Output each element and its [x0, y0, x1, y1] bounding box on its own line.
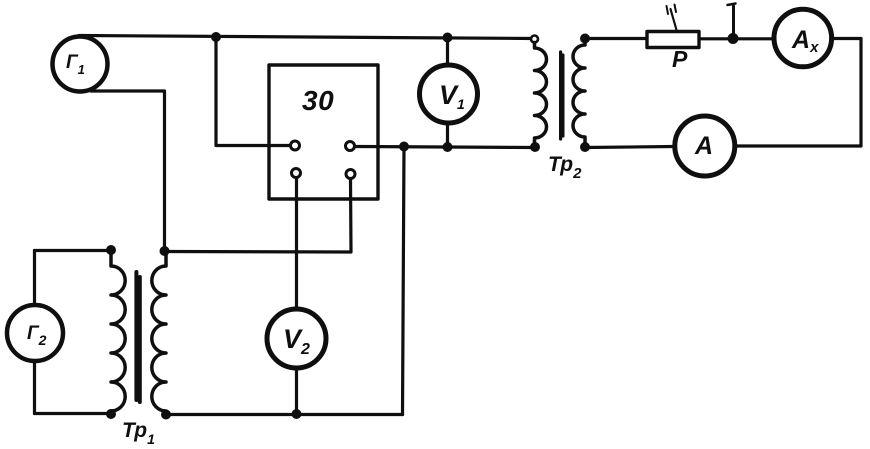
wire lower-left terminal down to V2 — [295, 179, 298, 309]
node junction bottom bus at V2 — [292, 409, 302, 419]
wire Тр2 secondary top to resistor P — [585, 37, 647, 40]
transformer Тр2 core — [559, 52, 562, 139]
transformer Тр1 core — [134, 272, 138, 400]
wire junction down to ЗО box left terminal — [216, 37, 289, 146]
terminal upper-right of ЗО — [346, 142, 355, 151]
node Тр1 secondary bottom — [161, 410, 171, 420]
voltmeter V2 — [267, 309, 326, 368]
ammeter Ах — [774, 9, 832, 67]
node Тр2 secondary bottom — [580, 142, 590, 152]
wire right riser x=403 down to bottom bus — [403, 147, 405, 415]
wire Ах right, down right side, to ammeter А — [736, 39, 861, 147]
transformer Тр2 secondary coil — [573, 39, 585, 148]
svg-text:Р: Р — [672, 46, 688, 72]
resistor P — [647, 32, 699, 48]
box ЗО — [269, 65, 378, 199]
node Тр1 primary top — [106, 245, 116, 255]
node junction bottom at V1 — [443, 142, 453, 152]
generator Г1 — [53, 37, 108, 92]
terminal stub up from junction — [732, 6, 735, 39]
wire bottom bus — [165, 413, 403, 416]
node junction top bus at V1 — [443, 33, 453, 43]
transformer Тр1 primary coil — [111, 250, 125, 415]
node Тр1 primary bottom — [106, 409, 116, 419]
terminal upper-left of ЗО — [291, 141, 300, 150]
node junction at x=404 — [399, 142, 409, 152]
terminal lower-left of ЗО — [292, 169, 301, 178]
node Тр2 primary bottom — [530, 142, 540, 152]
node junction at x=733 — [728, 33, 739, 44]
svg-text:А: А — [694, 132, 713, 160]
node junction top-left (x=216 on top bus) — [211, 32, 221, 42]
ammeter А — [675, 116, 735, 176]
wire Г1 bottom to Тр1 secondary top — [91, 91, 165, 251]
node junction Тр1 secondary top — [160, 246, 170, 256]
wire box right terminal to Тр2 primary bottom — [356, 147, 536, 148]
voltmeter V1 top stub wire — [446, 38, 449, 65]
terminal lower-right of ЗО — [346, 170, 355, 179]
wire lower-right terminal down and left to Тр1 secondary — [165, 180, 352, 253]
node Тр2 secondary top — [580, 34, 590, 44]
transformer Тр1 secondary coil — [152, 250, 166, 415]
wire V2 bottom to bottom bus — [295, 368, 298, 414]
wire Г2 loop left lower — [33, 362, 36, 414]
svg-text:Тр2: Тр2 — [548, 153, 582, 182]
svg-text:Тр1: Тр1 — [122, 419, 155, 447]
transformer Тр2 primary coil with open ring top — [531, 36, 538, 43]
wire Г2 loop left upper — [33, 251, 36, 305]
wire Г2 loop bottom — [35, 412, 112, 415]
resistor slider arrow — [671, 9, 677, 30]
wire ammeter А to Тр2 secondary bottom — [585, 147, 674, 148]
voltmeter V1 bottom stub wire — [446, 125, 449, 147]
generator Г2 — [7, 305, 63, 361]
svg-text:30: 30 — [302, 85, 334, 116]
voltmeter V1 — [420, 65, 478, 123]
wire Г2 loop top — [35, 249, 112, 252]
wire top bus from Г1 to Тр2 primary top — [79, 36, 534, 39]
wire resistor to Ах — [699, 37, 774, 40]
